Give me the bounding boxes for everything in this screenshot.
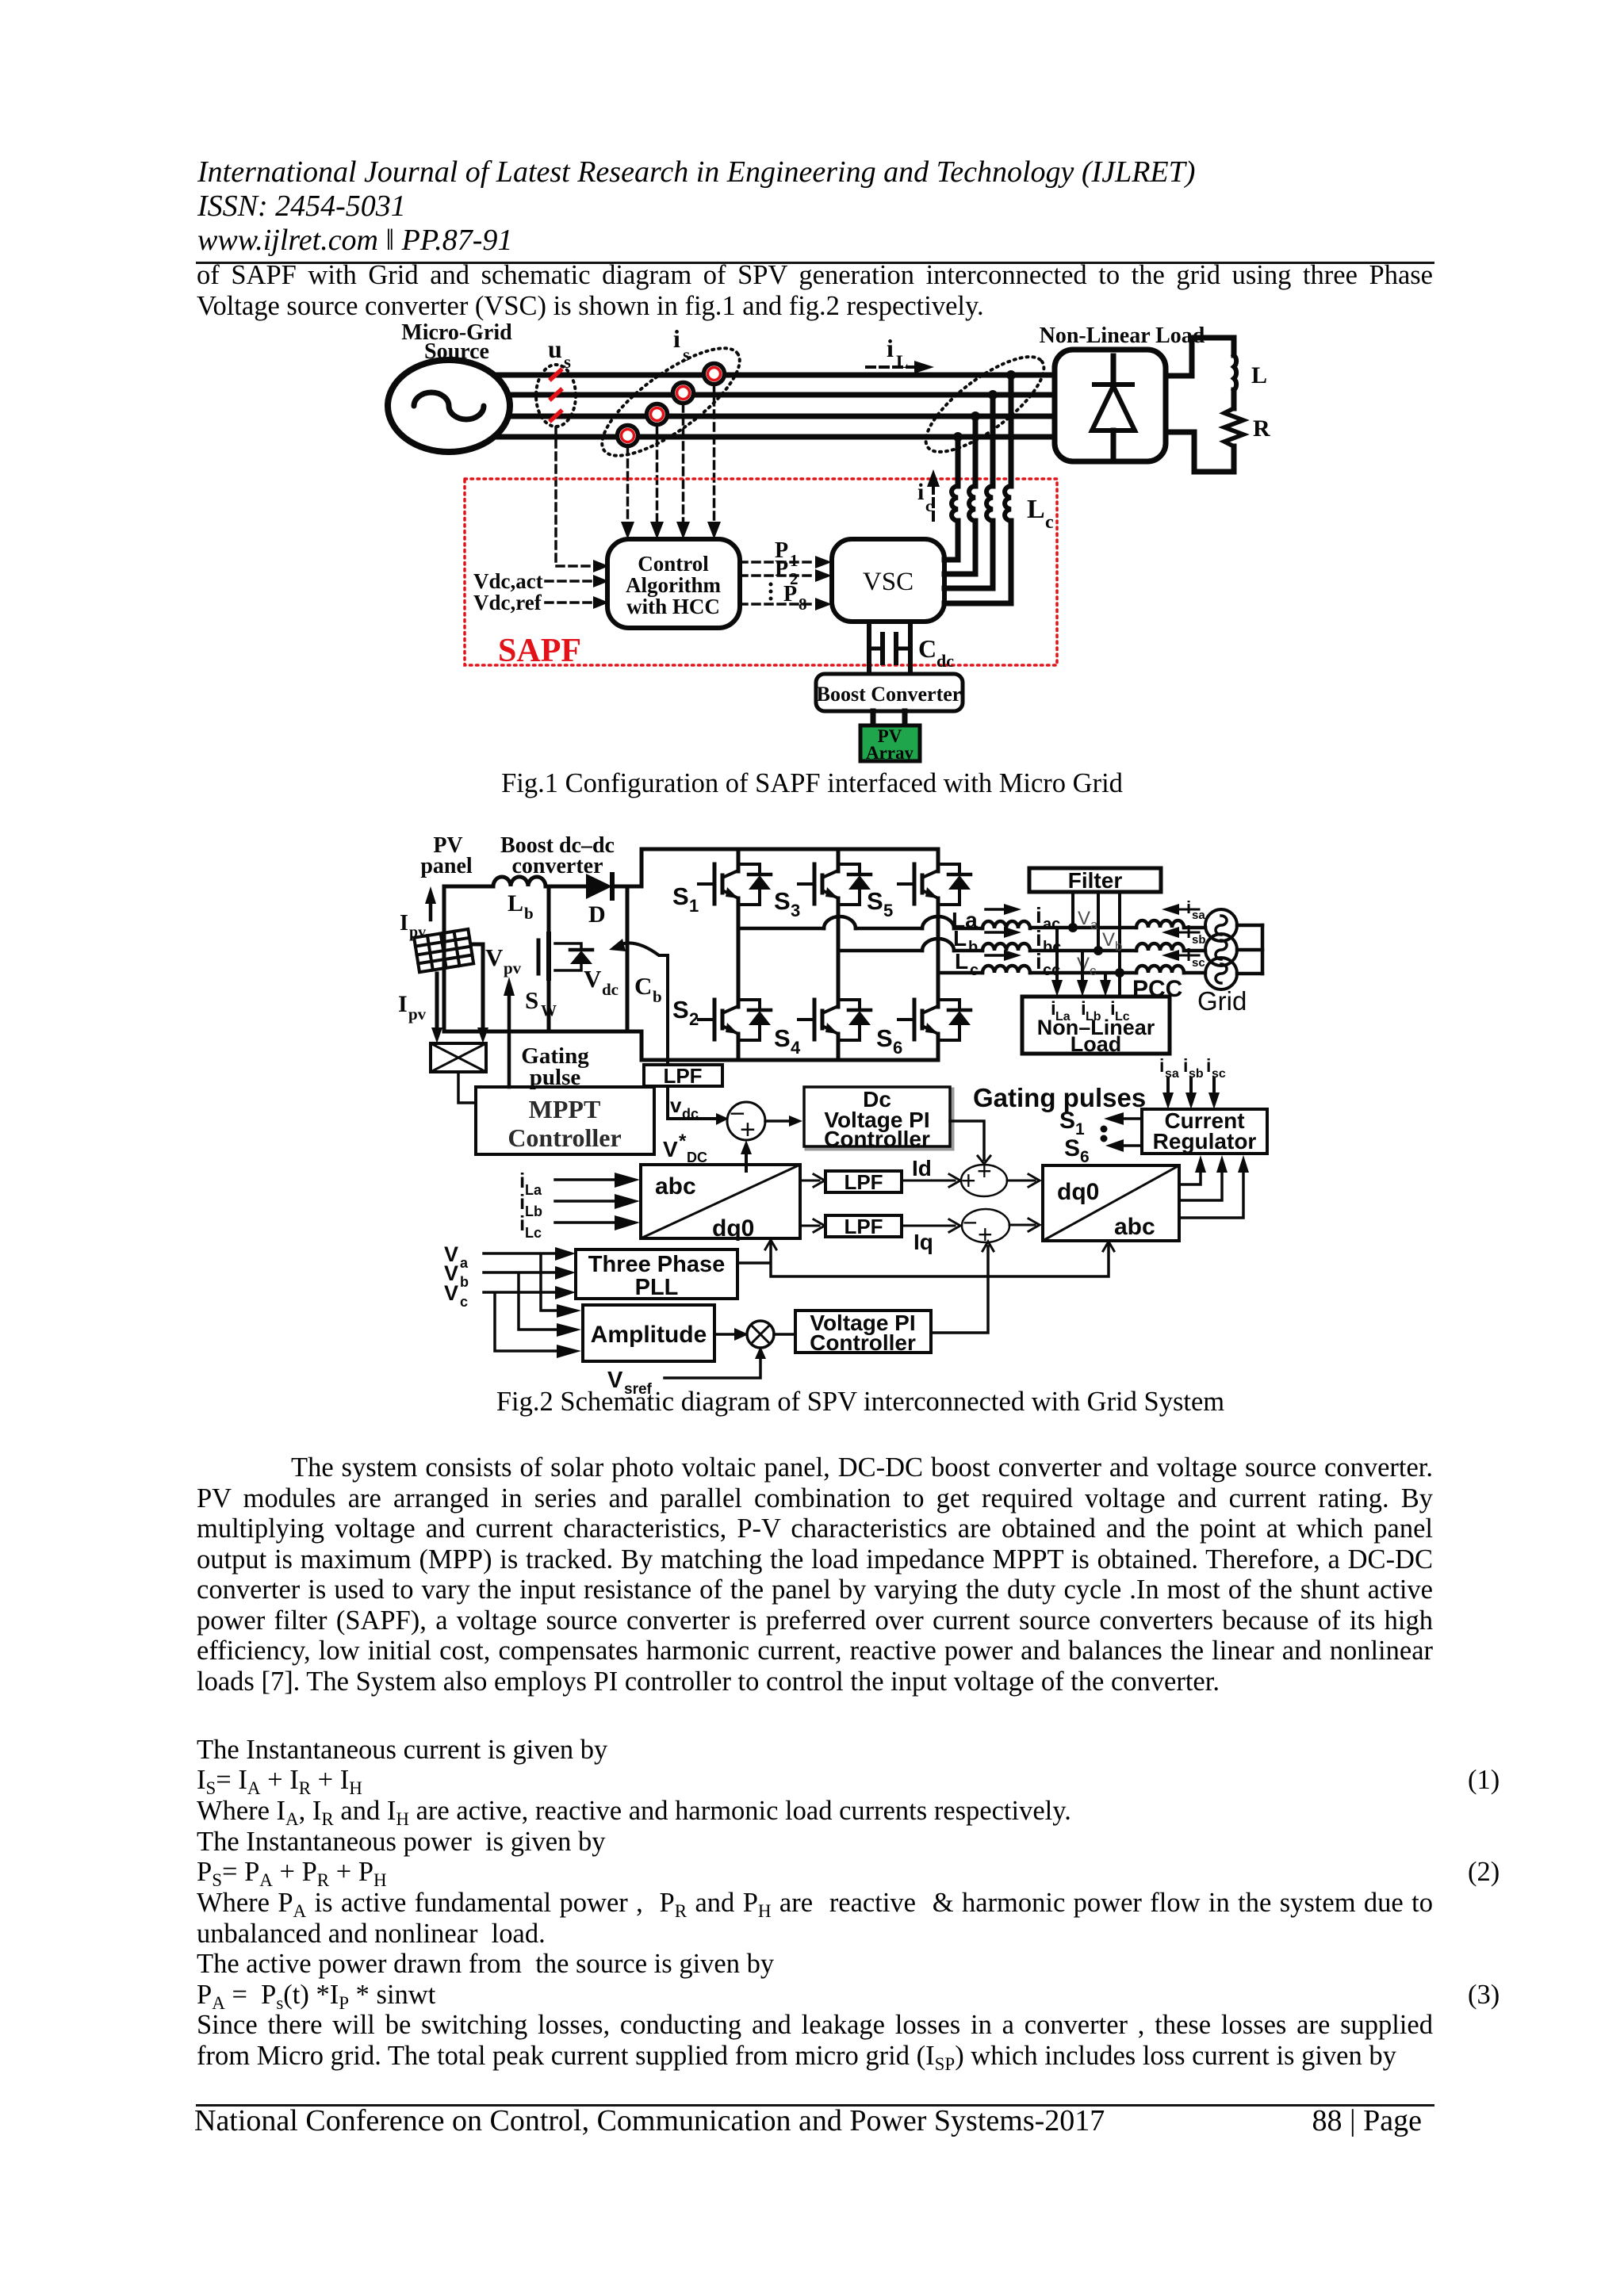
grid source b — [1205, 934, 1237, 966]
transistor Sw boost switch — [547, 886, 551, 1031]
wire riser to inverter dc bus — [640, 849, 644, 1060]
dots ellipsis between P2 and P8 — [769, 583, 773, 601]
label Lb — [953, 926, 978, 956]
controller three phase PLL — [576, 1249, 737, 1299]
svg-text:V: V — [584, 965, 602, 993]
IGBT S2 — [699, 1000, 771, 1040]
leg C — [936, 849, 940, 1060]
LPF vdc box — [668, 955, 716, 1119]
svg-text:+: + — [977, 1157, 992, 1185]
wire VSC port4 to phase1 via Lc — [944, 375, 1011, 603]
resistor R — [1224, 408, 1243, 446]
grid source a — [1205, 909, 1237, 941]
label i_c with arrow — [932, 485, 935, 520]
label Cb — [634, 972, 662, 1006]
svg-text:s: s — [564, 352, 571, 372]
leg A — [737, 849, 741, 1060]
label i_s — [673, 324, 690, 365]
figure 1 caption — [0, 770, 1624, 798]
svg-text:S: S — [774, 1024, 791, 1052]
svg-text:Load: Load — [1071, 1032, 1122, 1056]
controller current regulator — [1142, 1109, 1267, 1154]
diode D boost — [586, 874, 612, 899]
controller U1: Control Algorithm with HCC — [607, 539, 740, 628]
inductor Lc grid — [982, 966, 1030, 973]
summer Id — [961, 1165, 1007, 1196]
svg-text:L: L — [1027, 495, 1045, 524]
svg-text:pv: pv — [504, 959, 522, 978]
inductor La — [982, 921, 1030, 928]
transform block dq0 to abc — [1043, 1165, 1179, 1241]
grid impedance coil a — [1136, 920, 1184, 928]
label Vdc — [584, 965, 619, 999]
svg-text:Controller: Controller — [507, 1123, 621, 1152]
diode D1 inside load — [1111, 356, 1116, 386]
inductor Lb — [493, 877, 546, 886]
arrow S6 gate signal — [1064, 1135, 1090, 1166]
label S4 — [774, 1024, 801, 1058]
svg-text:i: i — [1159, 1055, 1164, 1076]
svg-text:Iq: Iq — [913, 1230, 933, 1254]
svg-text:i: i — [1036, 926, 1042, 951]
CT sensor phase 3 — [647, 404, 668, 425]
wire PLL to transform blocks — [737, 1243, 1109, 1276]
svg-text:Boost Converter: Boost Converter — [817, 683, 962, 706]
label PV panel — [420, 833, 473, 878]
wire boost bottom rail — [444, 1030, 642, 1034]
svg-text:3: 3 — [791, 901, 800, 920]
svg-text:R: R — [1253, 415, 1270, 442]
IGBT S3 — [799, 864, 871, 905]
svg-text:S: S — [867, 887, 883, 915]
wire boost to PV array — [873, 711, 905, 725]
svg-text:sa: sa — [1192, 909, 1205, 922]
wire Vc to PLL and amplitude — [484, 1292, 557, 1351]
label S2 — [672, 996, 699, 1029]
label S6 — [876, 1024, 902, 1058]
arrow iLc into load — [1104, 973, 1107, 982]
svg-text:V: V — [444, 1281, 458, 1305]
svg-text:+: + — [740, 1115, 756, 1145]
wire dashed CT2 to control — [682, 404, 685, 523]
wire VSC port3 to phase2 via Lc — [944, 395, 993, 588]
svg-text:Controller: Controller — [810, 1330, 916, 1355]
svg-text:b: b — [968, 939, 978, 956]
arrows isa isb isc into current regulator — [1159, 1055, 1226, 1081]
svg-text:−: − — [963, 1208, 978, 1237]
wires abc-dq0 to LPFs — [800, 1181, 819, 1226]
svg-text:Three Phase: Three Phase — [588, 1252, 725, 1277]
svg-text:SAPF: SAPF — [498, 633, 581, 669]
svg-text:C: C — [918, 634, 936, 663]
arrow isb — [1179, 932, 1199, 934]
grid source c — [1205, 958, 1237, 989]
label Gating pulse — [521, 1043, 589, 1090]
svg-text:Regulator: Regulator — [1153, 1129, 1257, 1154]
svg-text:Control: Control — [638, 552, 709, 576]
input iLb — [519, 1190, 542, 1219]
svg-text:6: 6 — [893, 1038, 902, 1058]
wire dashed P2 — [740, 574, 815, 577]
node ellipse around taps — [913, 341, 1057, 467]
label S1 — [672, 882, 699, 916]
converter U3: Boost Converter — [816, 674, 963, 711]
svg-text:V: V — [1078, 908, 1090, 929]
wire filter taps — [1073, 892, 1120, 997]
figure 2: SPV interconnected with grid system — [381, 825, 1316, 1395]
wire dashed CT1 to control — [713, 385, 716, 523]
svg-text:sc: sc — [1192, 956, 1205, 970]
summer vdc comparison — [727, 1102, 765, 1140]
svg-text:a: a — [460, 1255, 469, 1271]
wire VSC port2 to phase3 via Lc — [944, 416, 975, 574]
grid impedance coil b — [1136, 943, 1184, 951]
svg-text:dc: dc — [936, 651, 954, 671]
svg-text:5: 5 — [883, 901, 893, 920]
inverter dc rail bottom — [642, 1058, 938, 1062]
svg-text:dq0: dq0 — [1057, 1179, 1099, 1205]
label La — [952, 908, 978, 932]
wire bus phase 3 — [449, 414, 1055, 419]
svg-text:S: S — [672, 882, 689, 910]
svg-text:S: S — [1059, 1108, 1075, 1134]
gating pulse arrow to Sw — [507, 993, 511, 1087]
svg-text:*: * — [679, 1131, 687, 1152]
svg-text:sb: sb — [1192, 933, 1206, 947]
svg-text:S: S — [876, 1024, 893, 1052]
svg-text:i: i — [1186, 945, 1191, 965]
labels P1 P2 P8 — [775, 538, 807, 614]
wire Dc PI to summer Id — [950, 1121, 984, 1160]
summer Iq — [962, 1209, 1009, 1242]
IGBT S6 — [898, 1000, 971, 1040]
svg-text:Grid: Grid — [1197, 986, 1247, 1016]
micro-grid AC source G1 — [388, 360, 510, 452]
arrow icc — [986, 954, 1004, 957]
svg-text:V: V — [663, 1137, 678, 1161]
transform block abc to dq0 — [641, 1165, 800, 1238]
wire PV left leg — [442, 886, 446, 1031]
svg-text:Vdc,ref: Vdc,ref — [473, 591, 542, 614]
figure 2 caption — [98, 1388, 1622, 1416]
svg-text:PLL: PLL — [635, 1275, 679, 1300]
node Va — [1068, 923, 1078, 932]
svg-text:i: i — [1206, 1055, 1211, 1076]
svg-text:L: L — [955, 949, 968, 974]
svg-text:c: c — [1045, 512, 1054, 533]
svg-text:8: 8 — [799, 595, 807, 614]
svg-text:P: P — [775, 557, 788, 581]
svg-text:La: La — [525, 1182, 542, 1198]
svg-text:with HCC: with HCC — [626, 595, 720, 618]
label S5 — [867, 887, 893, 920]
svg-text:1: 1 — [689, 896, 699, 916]
svg-text:abc: abc — [1114, 1214, 1155, 1240]
wires dq0-abc outputs to current regulator — [1179, 1171, 1243, 1218]
wire LPF to summer Iq, label Iq — [902, 1225, 955, 1227]
wire grid bus — [1261, 925, 1265, 974]
svg-text:a: a — [1090, 917, 1098, 932]
svg-text:i: i — [673, 324, 680, 353]
arrow iac — [986, 908, 1004, 911]
svg-text:+: + — [961, 1166, 976, 1195]
arrow isa — [1179, 909, 1199, 911]
arrow isc — [1179, 955, 1199, 957]
svg-text:Filter: Filter — [1068, 868, 1123, 893]
label Boost dc-dc converter — [500, 833, 615, 878]
svg-text:S: S — [1064, 1135, 1080, 1161]
svg-text:C: C — [634, 972, 652, 1000]
svg-text:P: P — [783, 582, 797, 607]
svg-text:c: c — [460, 1294, 468, 1310]
svg-text:4: 4 — [791, 1038, 801, 1058]
multiplier circle X — [747, 1321, 774, 1348]
controller voltage PI — [795, 1311, 931, 1353]
wire bus phase 2 — [449, 392, 1055, 398]
capacitor Cb dc link — [626, 886, 630, 1031]
label Micro-Grid Source — [401, 320, 512, 364]
CT sensor phase 1 — [704, 364, 725, 385]
wire dashed u_s to control algorithm — [556, 427, 599, 566]
svg-text:Controller: Controller — [824, 1127, 930, 1151]
wire PV positive rail — [444, 885, 586, 889]
PV array block — [860, 725, 920, 761]
wire load to RL branch — [1166, 338, 1234, 472]
node ellipse i_s (current sensors) — [588, 331, 755, 474]
svg-text:2: 2 — [689, 1009, 699, 1029]
svg-text:v: v — [670, 1093, 682, 1117]
svg-text:LPF: LPF — [844, 1170, 883, 1194]
arrow amplitude to multiplier — [714, 1333, 734, 1336]
svg-text:pv: pv — [409, 924, 426, 941]
filter LPF Iq — [825, 1215, 902, 1237]
node ellipse u_s (voltage measurement) — [536, 365, 576, 427]
svg-text:L: L — [507, 890, 523, 916]
IGBT S4 — [799, 1000, 871, 1040]
input iLc — [519, 1211, 542, 1241]
wire dashed CT4 to control — [626, 447, 630, 523]
svg-text:c: c — [925, 496, 933, 515]
svg-text:pv: pv — [408, 1004, 427, 1024]
wire Va to PLL and amplitude — [484, 1253, 557, 1311]
svg-text:Algorithm: Algorithm — [626, 573, 721, 597]
wire dashed P8 — [740, 603, 815, 606]
node Vb — [1094, 946, 1103, 955]
label Vsref with wire — [607, 1368, 653, 1398]
header line 2 — [197, 191, 406, 221]
Vdc sense curved arrow — [617, 943, 668, 955]
leg B — [837, 849, 841, 1060]
svg-text:I: I — [398, 991, 408, 1017]
intro paragraph — [197, 262, 1433, 289]
multiplier X block — [431, 1043, 486, 1072]
svg-text:L: L — [1251, 362, 1267, 388]
node Vc — [1115, 968, 1124, 978]
label Va — [1078, 908, 1098, 932]
inductor Lb grid — [982, 943, 1030, 951]
svg-text:b: b — [524, 904, 534, 923]
wire dashed CT3 to control — [656, 426, 659, 523]
label V*DC with arrow — [663, 1131, 707, 1165]
wire multiplier to voltage PI — [774, 1333, 795, 1336]
svg-text:u: u — [548, 335, 562, 363]
SAPF boundary dotted red box — [465, 479, 1057, 665]
svg-text:VSC: VSC — [863, 568, 913, 596]
svg-text:V: V — [485, 943, 504, 971]
input iLa — [519, 1169, 542, 1198]
svg-text:i: i — [1183, 1055, 1188, 1076]
svg-text:s: s — [683, 345, 690, 365]
wire phase A output — [738, 925, 1262, 928]
label Vb — [1102, 929, 1122, 954]
svg-text:W: W — [541, 1002, 557, 1020]
label v_dc — [670, 1093, 699, 1122]
wire dashed P1 — [740, 561, 815, 564]
red sensor dash on phase 3 — [551, 411, 561, 420]
svg-text:i: i — [917, 479, 924, 505]
svg-text:b: b — [460, 1274, 469, 1290]
figure 1: SAPF with micro grid schematic — [349, 317, 1356, 777]
inductor L — [1234, 355, 1236, 390]
svg-text:LPF: LPF — [663, 1064, 702, 1088]
wire phase B output — [838, 950, 1262, 951]
footer left — [194, 2106, 1105, 2136]
svg-text:S: S — [774, 887, 791, 915]
svg-text:I: I — [400, 911, 408, 936]
filter block — [1029, 868, 1161, 892]
block amplitude — [583, 1305, 714, 1361]
capacitor C_dc — [869, 622, 910, 674]
svg-text:b: b — [1115, 939, 1122, 954]
wire summer Iq to dq0 — [1009, 1224, 1035, 1226]
wire dashed Vdc,ref — [546, 601, 593, 604]
IGBT S1 — [699, 864, 771, 905]
wire LPF to summer Id, label Id — [902, 1180, 955, 1182]
wire summer to Dc PI — [765, 1119, 789, 1123]
svg-text:i: i — [887, 334, 894, 362]
label Vpv with measure arrow — [485, 943, 522, 978]
label Vc — [1077, 954, 1097, 978]
label i_L with arrow — [887, 334, 908, 372]
red sensor dash on phase 1 — [551, 370, 561, 379]
header line 3 — [197, 225, 512, 255]
svg-text:dc: dc — [602, 980, 619, 999]
wire voltage PI to summer Iq — [931, 1246, 988, 1333]
wire bus phase 1 — [449, 373, 1055, 378]
svg-text:L: L — [896, 352, 908, 372]
svg-text:Amplitude: Amplitude — [591, 1322, 707, 1348]
arrow iLb into load — [1081, 951, 1084, 982]
equations block — [197, 1736, 607, 1764]
svg-text:L: L — [953, 926, 967, 951]
svg-text:i: i — [1036, 903, 1042, 928]
svg-text:Lc: Lc — [525, 1225, 542, 1241]
svg-text:b: b — [653, 987, 662, 1006]
arrow iLa into load — [1055, 928, 1059, 982]
svg-text:V: V — [1102, 929, 1115, 951]
svg-text:MPPT: MPPT — [529, 1095, 601, 1123]
Sw body diode — [555, 943, 581, 970]
labels Va Vb Vc inputs — [444, 1242, 469, 1310]
junction dots on bus — [953, 370, 1016, 442]
arrow ibc — [986, 931, 1004, 934]
svg-text:c: c — [970, 962, 979, 979]
svg-text:c: c — [1090, 963, 1097, 978]
red sensor dash on phase 2 — [551, 390, 561, 399]
svg-text:i: i — [1036, 949, 1042, 974]
svg-text:Source: Source — [424, 339, 489, 364]
wire VSC port1 to phase4 via Lc — [944, 437, 958, 560]
inverter dc rail top — [642, 848, 938, 851]
header rule — [196, 262, 1434, 264]
label Lc — [955, 949, 979, 979]
label L_c — [1027, 495, 1054, 533]
header line 1 — [197, 157, 1195, 187]
svg-text:1: 1 — [790, 551, 799, 570]
label Sw — [525, 986, 557, 1020]
footer rule — [196, 2104, 1434, 2107]
svg-text:i: i — [1186, 922, 1191, 942]
wire Vb to PLL and amplitude — [484, 1272, 557, 1330]
wire dashed Vdc,act — [546, 580, 593, 583]
controller MPPT — [476, 1087, 654, 1154]
wire summer Id to dq0 — [1007, 1180, 1035, 1182]
label S3 — [774, 887, 800, 920]
svg-text:converter: converter — [511, 854, 603, 878]
converter U2: VSC — [832, 539, 944, 622]
svg-text:D: D — [588, 901, 606, 928]
svg-text:panel: panel — [420, 854, 473, 878]
svg-text:Id: Id — [912, 1156, 932, 1181]
dots between S1 and S6 — [1101, 1126, 1108, 1133]
PV panel array symbol — [414, 929, 473, 972]
svg-text:S: S — [672, 996, 689, 1024]
wire phase C output — [938, 973, 1262, 974]
svg-text:Non-Linear Load: Non-Linear Load — [1040, 323, 1205, 348]
label u_s — [548, 335, 571, 372]
label Ipv upper with arrow — [400, 911, 426, 941]
CT sensor phase 2 — [673, 383, 694, 404]
rectifier load box — [1055, 350, 1166, 461]
label Ipv lower with arrow into multiplier — [398, 991, 427, 1024]
filter LPF Id — [825, 1171, 902, 1192]
footer right — [1263, 2106, 1422, 2136]
controller Dc Voltage PI — [806, 1089, 952, 1149]
svg-text:dq0: dq0 — [712, 1215, 754, 1242]
wire multiplier to MPPT — [458, 1072, 476, 1103]
grid impedance coil c — [1136, 966, 1184, 973]
svg-text:Lb: Lb — [525, 1203, 542, 1219]
svg-text:abc: abc — [655, 1173, 696, 1200]
svg-text:LPF: LPF — [844, 1215, 883, 1238]
wire bus phase 4 — [449, 434, 1055, 440]
IGBT S5 — [898, 864, 971, 905]
svg-text:dc: dc — [682, 1106, 699, 1122]
svg-text:i: i — [1186, 897, 1191, 917]
load block: non-linear load — [1022, 997, 1170, 1054]
label Lb — [507, 890, 534, 923]
body paragraph — [197, 1454, 1433, 1482]
svg-text:Array: Array — [866, 743, 914, 763]
arrow S1 gate signal — [1059, 1108, 1085, 1138]
CT sensor phase 4 — [618, 426, 638, 446]
svg-text:Vdc,act: Vdc,act — [473, 569, 543, 593]
svg-text:6: 6 — [1080, 1148, 1090, 1166]
svg-text:S: S — [525, 986, 538, 1014]
